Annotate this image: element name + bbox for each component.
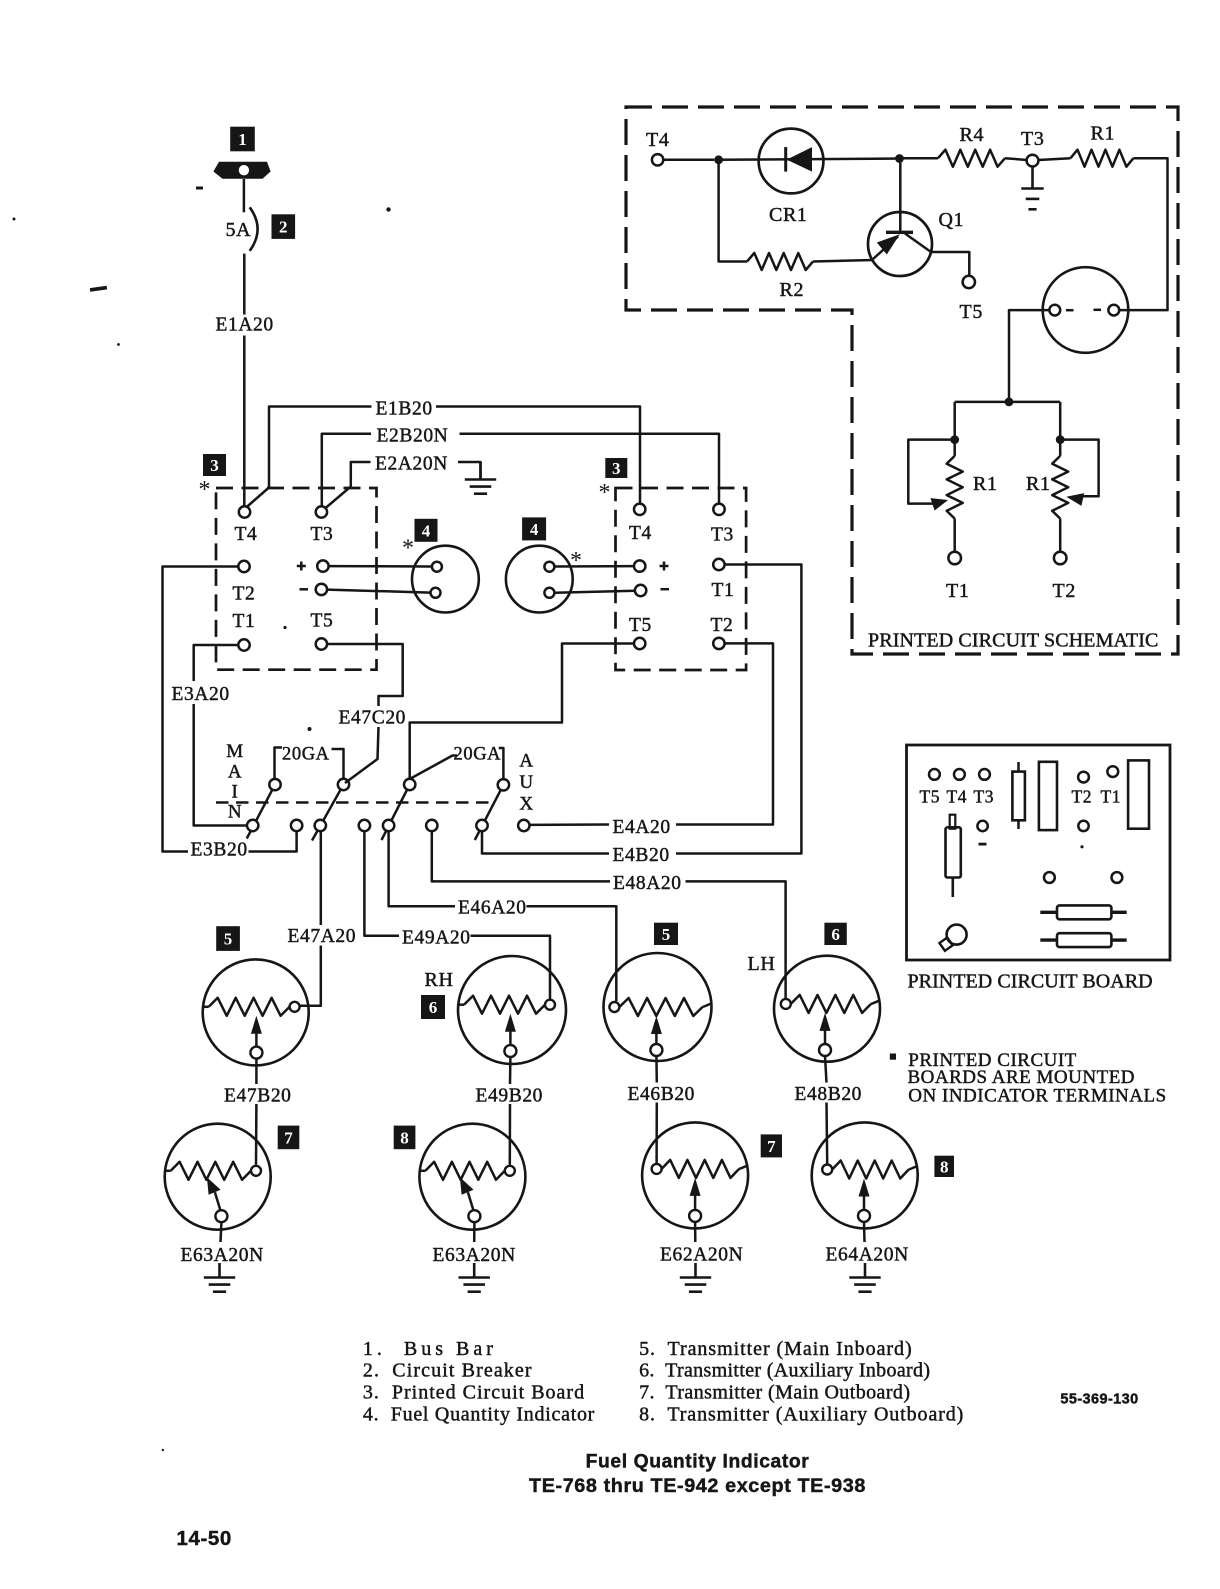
wire+ground E63A20N 1 [204, 1263, 235, 1292]
label T3 (right PCB) [711, 525, 734, 546]
switch pole 2 lower contact [315, 820, 326, 831]
svg-text:5: 5 [662, 925, 671, 944]
badge 3 (right PCB) [605, 458, 627, 478]
svg-text:4: 4 [422, 521, 431, 540]
label T3 (left PCB) [311, 524, 334, 545]
label PRINTED CIRCUIT BOARD [908, 971, 1153, 993]
svg-text:T5: T5 [311, 611, 334, 632]
label T4 (left PCB) [235, 524, 258, 545]
terminal T5 (left PCB) [316, 638, 327, 649]
svg-text:*: * [199, 477, 211, 503]
terminal T2 (schematic) [1054, 552, 1067, 565]
label E1B20 [376, 399, 433, 420]
label R1 (right pot) [1026, 473, 1051, 495]
svg-text:T4: T4 [646, 129, 669, 151]
label CR1 [769, 204, 807, 226]
svg-text:8: 8 [940, 1157, 949, 1176]
mechanical link dashed line [216, 801, 493, 803]
wire indicator 2 to minus [555, 591, 635, 593]
switch pole 3 upper contact [404, 779, 415, 790]
contact (E49A20) [359, 820, 370, 831]
pcb hole below T2 [1078, 821, 1088, 849]
20GA jumper right bracket [332, 749, 344, 779]
svg-text:*: * [599, 480, 611, 506]
svg-text:3: 3 [612, 459, 621, 478]
left pot wiper arrow [930, 495, 949, 511]
speckle marks [13, 187, 391, 1452]
svg-text:Fuel Quantity Indicator: Fuel Quantity Indicator [586, 1452, 810, 1473]
wire E47C20 lower to pole 2 upper contact [345, 727, 379, 783]
wire E3B20 (label to contact) [249, 832, 297, 852]
wire T3 to R1 [1038, 158, 1070, 160]
pcb labels T2 T1 [1072, 787, 1122, 807]
label E49A20 [402, 927, 471, 948]
svg-text:E48A20: E48A20 [613, 873, 682, 894]
svg-text:3: 3 [210, 456, 219, 475]
terminal T1 (schematic) [948, 552, 961, 565]
asterisk (right PCB) [599, 480, 611, 506]
badge 3 (left PCB) [203, 454, 226, 476]
pcb hole T3 [979, 769, 990, 780]
20GA aux right bracket [499, 748, 504, 779]
meter left terminal [1049, 305, 1060, 316]
wire E47B20 lower [255, 1104, 258, 1165]
svg-text:T2: T2 [1053, 580, 1076, 602]
badge 5 (top 3) [654, 923, 678, 945]
svg-text:R1: R1 [1026, 473, 1051, 495]
wire E47A20 lower to transmitter 1 [300, 946, 321, 1006]
wire E2B20N (left vertical to label) [322, 434, 371, 506]
pcb hole mid right [1112, 872, 1123, 883]
label T5 (left PCB) [311, 611, 334, 632]
wire R2 from node [719, 160, 747, 262]
svg-text:E2A20N: E2A20N [375, 453, 448, 474]
badge 6 (transmitter aux inboard RH) [421, 995, 445, 1019]
svg-text:T2: T2 [233, 584, 256, 605]
label E46B20 [628, 1084, 696, 1105]
terminal T2 (right PCB) [713, 638, 724, 649]
wire E4B20 (label to switch) [482, 831, 609, 854]
wire E1B20 (label to right PCB T4) [436, 407, 640, 504]
wire E1A20 lower segment [243, 336, 246, 507]
terminal T4 (schematic) [652, 154, 663, 165]
svg-text:*: * [570, 548, 582, 574]
pcb hole T5 [929, 769, 940, 780]
indicator 2 bottom terminal [544, 588, 554, 598]
wire R4 to T3 [1005, 158, 1027, 160]
svg-text:E4A20: E4A20 [613, 817, 671, 838]
wire through CR1 [719, 159, 900, 160]
label T4 (right PCB) [629, 523, 652, 544]
svg-text:E48B20: E48B20 [795, 1084, 863, 1105]
indicator 2 circle (item 4) [506, 546, 573, 613]
wire Q1 to T5 [931, 252, 969, 276]
wire pots top rail [955, 401, 1060, 404]
wire E47C20 upper (left T5 to label) [327, 644, 403, 706]
wire E47B20 upper [255, 1059, 258, 1084]
svg-text:E4B20: E4B20 [613, 845, 670, 866]
badge 7 (bottom 3) [761, 1134, 782, 1157]
svg-text:2: 2 [279, 218, 288, 237]
wire E46B20 lower [655, 1103, 658, 1164]
svg-text:CR1: CR1 [769, 204, 807, 226]
svg-text:14-50: 14-50 [177, 1527, 232, 1550]
label MAIN (vertical) [226, 741, 244, 823]
resistor R1 (top) [1071, 150, 1134, 167]
note text PRINTED CIRCUIT BOARDS ARE MOUNTED ON INDICATOR TERMINALS [908, 1050, 1167, 1107]
wire E49A20 lower to transmitter 2 [471, 936, 551, 999]
svg-text:T5: T5 [629, 615, 652, 636]
badge 4 (indicator 2) [522, 517, 546, 540]
label T2 (schematic) [1053, 580, 1076, 602]
label E4B20 [613, 845, 670, 866]
pcb labels T5 T4 T3 [920, 787, 995, 807]
svg-text:2. Circuit Breaker: 2. Circuit Breaker [363, 1359, 533, 1381]
legend left column [363, 1338, 595, 1426]
switch pole 2 arm [312, 785, 344, 841]
wire bus bar to breaker [243, 179, 246, 212]
svg-text:E63A20N: E63A20N [433, 1245, 516, 1266]
wire E48B20 upper [825, 1056, 827, 1083]
wire right T5 to pole 3 upper contact [410, 644, 634, 780]
asterisk (indicator 1) [402, 535, 414, 561]
wire E49B20 upper [509, 1057, 512, 1084]
wire E46A20 upper (pole 3 contact down) [389, 831, 455, 906]
label E62A20N [660, 1245, 743, 1266]
pcb hole T1 [1107, 766, 1118, 777]
terminal minus (right PCB) [635, 585, 646, 596]
label PRINTED CIRCUIT SCHEMATIC [868, 630, 1158, 652]
svg-text:E63A20N: E63A20N [181, 1245, 264, 1266]
svg-text:T4: T4 [947, 787, 968, 807]
ground (T3) [1021, 167, 1043, 210]
pcb hole T2 [1078, 772, 1089, 783]
right pot wiper loop [1060, 440, 1098, 497]
transmitter 6 aux inboard RH (top 2) [458, 956, 566, 1064]
switch pole 3 arm [382, 785, 410, 841]
terminal T4 (right PCB) [634, 504, 645, 515]
svg-text:T5: T5 [920, 787, 941, 807]
wire E63A20N 1 upper [219, 1223, 222, 1243]
wire E47A20 upper (pole 2 contact down) [320, 831, 323, 925]
wire T1 to E3A20 upper [194, 645, 239, 681]
wire E2A20N (label to ground) [458, 462, 481, 480]
svg-text:T1: T1 [1101, 787, 1122, 807]
wire E48A20 lower to transmitter 4 [686, 881, 786, 998]
meter right terminal [1108, 305, 1119, 316]
transmitter 6 aux inboard (top 4) [774, 956, 880, 1062]
wire+ground E62A20N [680, 1263, 711, 1292]
svg-text:A: A [228, 762, 242, 783]
wire+ground E63A20N 2 [459, 1263, 490, 1292]
terminal T5 (right PCB) [634, 638, 645, 649]
badge 6 (top 4) [824, 923, 846, 945]
wire E48B20 lower [825, 1103, 828, 1164]
svg-text:55-369-130: 55-369-130 [1060, 1392, 1138, 1408]
badge 8 (bottom 2) [394, 1126, 416, 1150]
label E47B20 [224, 1086, 292, 1107]
pcb capacitor (vertical capsule) [946, 815, 961, 897]
label LH [748, 953, 776, 975]
indicator 1 circle (item 4) [412, 546, 479, 613]
terminal minus (left PCB) [316, 584, 327, 595]
svg-text:1: 1 [238, 130, 247, 149]
plus sign (right PCB) [660, 562, 669, 571]
svg-text:TE-768 thru TE-942 except TE-9: TE-768 thru TE-942 except TE-938 [529, 1475, 866, 1497]
transmitter 5 main inboard (top 1) [203, 959, 309, 1065]
switch pole 4 lower contact [476, 820, 487, 831]
switch pole 4 arm [475, 785, 504, 840]
svg-text:R1: R1 [1091, 123, 1116, 145]
label E63A20N (1) [181, 1245, 264, 1266]
switch pole 4 upper contact [498, 779, 509, 790]
minus sign (left PCB) [300, 588, 309, 591]
transistor Q1 [868, 212, 932, 276]
indicator 2 top terminal [544, 562, 554, 572]
badge 7 (bottom 1) [278, 1126, 300, 1150]
svg-text:E62A20N: E62A20N [660, 1245, 743, 1266]
svg-text:PRINTED CIRCUIT SCHEMATIC: PRINTED CIRCUIT SCHEMATIC [868, 630, 1158, 652]
pcb resistor capsule 2 [1040, 933, 1126, 947]
svg-text:E1A20: E1A20 [216, 315, 274, 336]
svg-text:E46A20: E46A20 [458, 898, 527, 919]
ground (E2A20N) [465, 462, 496, 494]
badge 4 (indicator 1) [415, 519, 438, 542]
terminal plus (right PCB) [634, 560, 645, 571]
terminal T3 (schematic) [1027, 155, 1039, 167]
wire E46B20 upper [655, 1056, 658, 1083]
potentiometer R1 (right) [1052, 440, 1068, 552]
svg-text:E49B20: E49B20 [476, 1086, 544, 1107]
label E48B20 [795, 1084, 863, 1105]
wire E63A20N 2 upper [473, 1223, 476, 1243]
svg-text:T3: T3 [711, 525, 734, 546]
label T2 (right PCB) [711, 615, 734, 636]
svg-text:20GA: 20GA [282, 744, 330, 764]
asterisk (left PCB) [199, 477, 211, 503]
transmitter 8 aux outboard (bottom 2) [419, 1124, 525, 1230]
pcb hole mid left [1044, 872, 1055, 883]
transmitter 7 main outboard (bottom 1) [165, 1124, 271, 1230]
terminal T4 (left PCB) [239, 506, 250, 517]
svg-text:E47C20: E47C20 [339, 708, 407, 729]
svg-text:E49A20: E49A20 [402, 927, 471, 948]
svg-text:5A: 5A [226, 219, 252, 241]
wire E49A20 upper (contact down) [364, 831, 399, 936]
switch pole 1 arm [247, 785, 275, 839]
asterisk (indicator 2) [570, 548, 582, 574]
wire rail to right pot [1059, 402, 1062, 440]
svg-text:N: N [228, 802, 242, 823]
svg-text:T2: T2 [1072, 787, 1093, 807]
label R1 (left pot) [973, 473, 998, 495]
svg-text:4. Fuel Quantity Indicator: 4. Fuel Quantity Indicator [363, 1403, 595, 1425]
plus sign (left PCB) [297, 562, 306, 571]
label T1 (schematic) [946, 580, 969, 602]
label E49B20 [476, 1086, 544, 1107]
svg-text:E2B20N: E2B20N [377, 426, 449, 447]
badge 2 [272, 214, 296, 239]
switch pole 1 upper contact [269, 779, 280, 790]
terminal T3 (right PCB) [713, 504, 724, 515]
label E2B20N [377, 426, 449, 447]
wire E48A20 upper (contact down) [432, 831, 610, 881]
label 20GA (aux) left tie [410, 756, 457, 780]
terminal plus (left PCB) [317, 560, 328, 571]
resistor R4 [938, 150, 1005, 167]
svg-text:5: 5 [224, 930, 233, 949]
wire E4A20 (label to contact) [530, 823, 610, 826]
wire R2 to Q1 emitter [813, 260, 873, 262]
note bullet [890, 1054, 896, 1060]
label E64A20N [826, 1245, 909, 1266]
switch pole 3 lower contact [383, 820, 394, 831]
node (pots top) [1005, 398, 1014, 407]
svg-text:E47A20: E47A20 [288, 926, 357, 947]
label E3B20 [191, 840, 248, 861]
indicator 1 bottom terminal [431, 588, 441, 598]
node (right pot) [1056, 435, 1065, 444]
svg-text:4: 4 [530, 520, 539, 539]
badge 8 (bottom 4) [934, 1156, 954, 1177]
indicator 1 top terminal [432, 562, 442, 572]
svg-text:U: U [519, 772, 533, 793]
printed circuit board outline [907, 745, 1171, 960]
svg-text:Q1: Q1 [939, 209, 965, 231]
svg-text:6. Transmitter (Auxiliary Inb: 6. Transmitter (Auxiliary Inboard) [639, 1359, 930, 1381]
switch pole 1 lower contact [247, 820, 258, 831]
terminal T3 (left PCB) [316, 506, 327, 517]
svg-text:8: 8 [400, 1129, 409, 1148]
svg-text:6: 6 [429, 998, 438, 1017]
svg-text:E3A20: E3A20 [172, 684, 230, 705]
printed circuit schematic dashed border [626, 107, 1178, 654]
label R2 [780, 279, 805, 301]
contact (E3B20) [291, 820, 302, 831]
svg-text:T1: T1 [946, 580, 969, 602]
svg-text:M: M [226, 741, 244, 762]
terminal T1 (right PCB) [713, 559, 724, 570]
svg-text:8. Transmitter (Auxiliary Out: 8. Transmitter (Auxiliary Outboard) [639, 1403, 964, 1425]
svg-text:T1: T1 [233, 611, 256, 632]
wire T2 to E3B20 vertical [163, 567, 239, 852]
node (left pot) [950, 435, 959, 444]
pcb resistor (vertical small) [1012, 762, 1025, 829]
potentiometer R1 (left) [947, 440, 963, 552]
minus sign (right PCB) [661, 588, 670, 591]
switch pole 2 upper contact [338, 779, 349, 790]
label 20GA (aux) [454, 744, 502, 764]
pcb component (tall rect 2) [1128, 760, 1149, 828]
svg-text:E46B20: E46B20 [628, 1084, 696, 1105]
wire E1B20 (left elbow to label) [269, 407, 372, 488]
label E47C20 [339, 708, 407, 729]
svg-text:R1: R1 [973, 473, 998, 495]
pcb transistor [939, 925, 966, 951]
svg-text:E1B20: E1B20 [376, 399, 433, 420]
svg-text:PRINTED CIRCUIT BOARD: PRINTED CIRCUIT BOARD [908, 971, 1153, 993]
transmitter 7 main outboard (bottom 3) [642, 1122, 748, 1228]
label RH [425, 969, 454, 991]
wire minus to indicator 1 [327, 590, 430, 593]
pcb hole T4 [954, 769, 965, 780]
label E63A20N (2) [433, 1245, 516, 1266]
label T3 (schematic) [1021, 128, 1044, 150]
pcb resistor capsule 1 [1040, 905, 1126, 919]
wire E2B20N (label to right PCB T3) [460, 434, 720, 504]
node (CR1-R4-Q1 junction) [895, 154, 904, 163]
wire+ground E64A20N [849, 1263, 880, 1292]
wire T2 to E4A20 [676, 643, 773, 824]
label E48A20 [613, 873, 682, 894]
svg-text:X: X [519, 794, 533, 815]
circuit breaker (item 2) 5A [250, 207, 258, 251]
svg-text:T4: T4 [629, 523, 652, 544]
svg-text:7. Transmitter (Main Outboard: 7. Transmitter (Main Outboard) [639, 1382, 910, 1404]
svg-text:20GA: 20GA [454, 744, 502, 764]
svg-text:T1: T1 [712, 580, 735, 601]
pcb hole below T3 [977, 821, 987, 831]
label E4A20 [613, 817, 671, 838]
label Q1 [939, 209, 965, 231]
wire E2A20N diagonal into left T3 [325, 487, 351, 509]
transmitter 5 main inboard LH-side (top 3) [604, 953, 712, 1061]
meter needle dashes [1066, 309, 1101, 312]
svg-text:7: 7 [284, 1129, 293, 1148]
svg-text:1. Bus Bar: 1. Bus Bar [363, 1338, 497, 1360]
label T5 (schematic) [960, 301, 983, 323]
svg-text:A: A [519, 751, 533, 772]
svg-text:E64A20N: E64A20N [826, 1245, 909, 1266]
label AUX (vertical) [519, 751, 533, 815]
svg-text:3. Printed Circuit Board: 3. Printed Circuit Board [363, 1382, 585, 1404]
wire node to R4 [900, 157, 939, 160]
wire E1A20 upper segment [243, 254, 246, 315]
wire plus to indicator 1 [329, 565, 432, 568]
label T1 (right PCB) [712, 580, 735, 601]
badge 5 (transmitter main inboard) [216, 926, 240, 951]
svg-text:LH: LH [748, 953, 776, 975]
wire T1 to E4B20 [676, 565, 801, 854]
terminal T1 (left PCB) [238, 639, 249, 650]
label T5 (right PCB) [629, 615, 652, 636]
node (T4-CR1 junction) [714, 155, 723, 164]
meter circle [1043, 267, 1129, 353]
svg-text:T5: T5 [960, 301, 983, 323]
badge 1 [230, 127, 255, 152]
wire E64A20N upper [863, 1222, 866, 1242]
wire T4 to CR1 node [663, 159, 714, 162]
svg-text:T4: T4 [235, 524, 258, 545]
resistor R2 [747, 253, 813, 270]
label T1 (left PCB) [233, 611, 256, 632]
left PCB dashed box [216, 488, 377, 670]
wire meter to pots node [1009, 310, 1049, 402]
svg-text:*: * [402, 535, 414, 561]
transmitter 8 aux outboard (bottom 4) [812, 1122, 918, 1228]
20GA jumper left bracket [275, 748, 283, 780]
svg-text:I: I [232, 782, 239, 803]
right PCB dashed box [616, 488, 747, 670]
svg-text:7: 7 [767, 1137, 776, 1156]
contact (E4A20) [518, 820, 529, 831]
wire E46A20 lower to transmitter 3 [527, 906, 617, 1001]
page number 14-50 [177, 1527, 232, 1550]
wire E62A20N upper [694, 1222, 697, 1242]
svg-text:R4: R4 [960, 124, 985, 146]
wire E1B20 diagonal into left T4 [246, 488, 270, 509]
label 20GA (main) [282, 744, 330, 764]
